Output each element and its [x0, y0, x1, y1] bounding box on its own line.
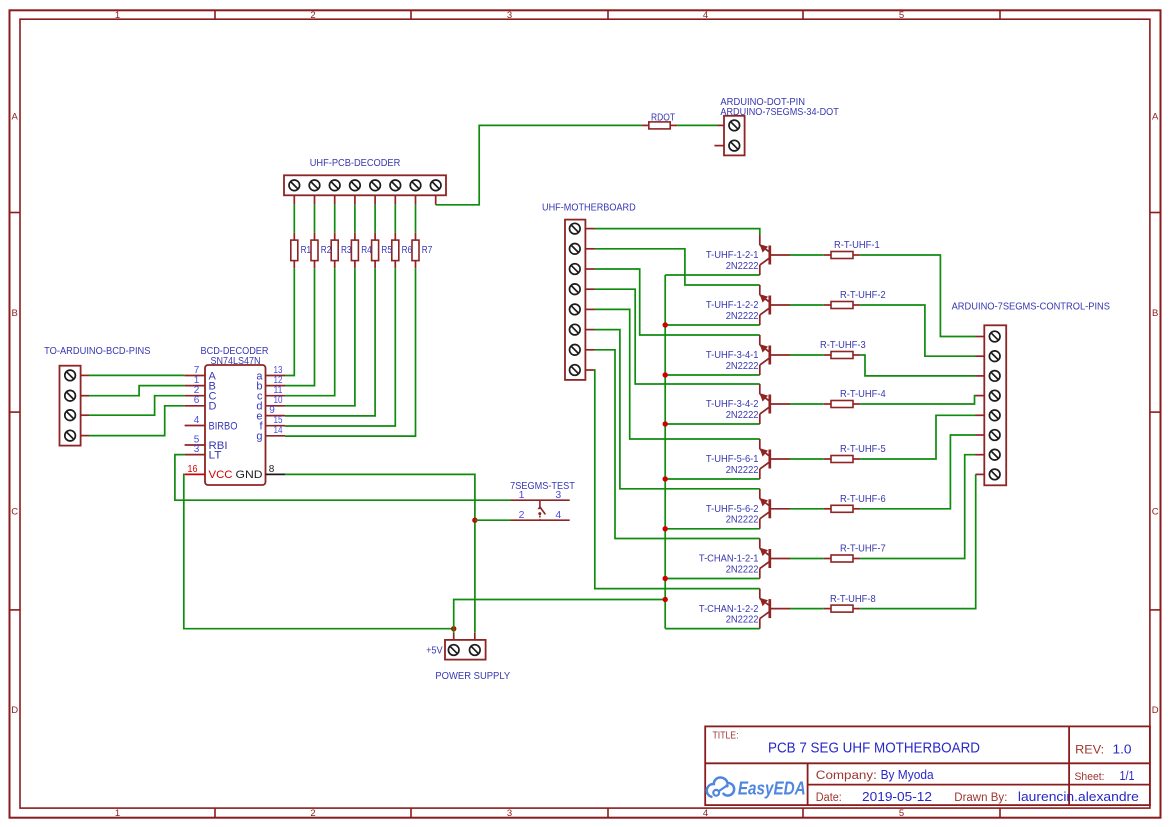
junction GND at switch row [472, 518, 477, 523]
svg-text:UHF-PCB-DECODER: UHF-PCB-DECODER [310, 157, 401, 169]
svg-text:C: C [11, 507, 18, 518]
EasyEDA logo cloud [707, 777, 734, 796]
wire R6 to IC pin [285, 268, 395, 426]
svg-text:3: 3 [507, 10, 512, 21]
wire R3 to IC pin [285, 268, 335, 396]
svg-text:6: 6 [194, 395, 200, 406]
svg-text:D: D [209, 401, 217, 413]
svg-text:Sheet:: Sheet: [1075, 771, 1105, 783]
wire Q6 base to resistor [790, 508, 824, 510]
resistor R-T-UHF-6 [824, 508, 831, 510]
svg-text:4: 4 [703, 808, 708, 819]
svg-text:R-T-UHF-7: R-T-UHF-7 [840, 543, 886, 555]
svg-text:PCB 7 SEG UHF MOTHERBOARD: PCB 7 SEG UHF MOTHERBOARD [768, 739, 980, 756]
junction common rail y=479 [663, 476, 668, 481]
svg-text:R7: R7 [422, 245, 433, 256]
junction at power supply pin1 [451, 626, 456, 631]
wire R-T-UHF-4 to ARD pin4 [860, 396, 975, 404]
wire Q3 emitter to common rail [665, 374, 760, 376]
transistor Q6 T-UHF-5-6-2 2N2222 [759, 489, 761, 499]
resistor R7 [415, 233, 417, 240]
wire R-T-UHF-8 to ARD pin8 [860, 474, 976, 608]
svg-text:2N2222: 2N2222 [726, 464, 759, 476]
svg-text:ARDUINO-7SEGMS-CONTROL-PINS: ARDUINO-7SEGMS-CONTROL-PINS [952, 301, 1110, 313]
svg-text:SN74LS47N: SN74LS47N [211, 355, 261, 367]
wire R-T-UHF-7 to ARD pin7 [860, 455, 975, 559]
junction common rail y=424 [663, 421, 668, 426]
resistor R3 [334, 233, 336, 240]
svg-text:R-T-UHF-5: R-T-UHF-5 [840, 443, 886, 455]
svg-text:R-T-UHF-1: R-T-UHF-1 [834, 239, 880, 251]
resistor R-T-UHF-8 [824, 608, 831, 610]
svg-text:2N2222: 2N2222 [726, 514, 759, 526]
resistor R6 [394, 233, 396, 240]
wires decoder pins 1-7 to resistors R1-R7 [293, 205, 295, 233]
connector ARDUINO-DOT-PIN pin stubs [718, 124, 725, 126]
wire Q2 base to resistor [790, 304, 824, 306]
wire Q5 emitter to common rail [665, 478, 760, 480]
resistor R-T-UHF-3 [824, 354, 831, 356]
svg-text:14: 14 [274, 425, 283, 436]
svg-text:g: g [256, 431, 262, 443]
IC U1 right pins a-g [266, 375, 286, 377]
svg-text:R-T-UHF-4: R-T-UHF-4 [840, 388, 886, 400]
svg-text:A: A [12, 111, 19, 122]
wire +5V rail to transistor common [454, 600, 666, 629]
wire RDOT to ARDUINO-DOT-PIN [677, 124, 717, 126]
connector UHF-MOTHERBOARD pin stubs [585, 228, 594, 230]
resistor R-T-UHF-7 [824, 558, 831, 560]
svg-text:2: 2 [519, 509, 525, 521]
wire MB pin5 to Q5 collector [595, 309, 760, 439]
svg-text:2N2222: 2N2222 [726, 563, 759, 575]
svg-text:R1: R1 [301, 245, 312, 256]
svg-text:D: D [1152, 705, 1159, 716]
svg-text:B: B [12, 308, 18, 319]
svg-text:5: 5 [899, 808, 904, 819]
svg-text:Drawn By:: Drawn By: [954, 792, 1007, 804]
svg-text:8: 8 [269, 464, 275, 475]
connector POWER SUPPLY pin stubs [453, 633, 455, 640]
connector J1 UHF-PCB-DECODER 8-pin terminal block [284, 175, 446, 195]
svg-text:3: 3 [555, 489, 561, 501]
svg-text:BIRBO: BIRBO [209, 420, 238, 432]
transistor Q1 T-UHF-1-2-1 2N2222 [759, 235, 761, 245]
svg-text:GND: GND [236, 469, 263, 481]
IC U1 left pins A B C D BIRBO RBI LT [185, 375, 205, 377]
wire Q5 base to resistor [790, 458, 824, 460]
connector ARDUINO-7SEGMS-CONTROL-PINS 8-pin [984, 325, 1006, 485]
connector POWER SUPPLY 2-pin [445, 640, 486, 660]
wire Q4 base to resistor [790, 403, 824, 405]
connector ARDUINO-DOT-PIN 2-pin [724, 116, 745, 156]
resistor R1 [293, 233, 295, 240]
svg-text:4: 4 [555, 509, 561, 521]
junction common rail y=375 [663, 372, 668, 377]
svg-text:RDOT: RDOT [651, 111, 675, 123]
svg-text:Company:: Company: [816, 770, 877, 782]
wire MB pin3 to Q3 collector [595, 269, 760, 335]
wire R-T-UHF-6 to ARD pin6 [860, 435, 975, 509]
svg-text:POWER SUPPLY: POWER SUPPLY [435, 670, 510, 682]
transistor Q4 T-UHF-3-4-2 2N2222 [759, 384, 761, 394]
svg-text:R-T-UHF-6: R-T-UHF-6 [840, 493, 886, 505]
wire Q8 base to resistor [790, 608, 824, 610]
svg-text:R6: R6 [402, 245, 413, 256]
svg-text:2N2222: 2N2222 [726, 409, 759, 421]
resistor R4 [354, 233, 356, 240]
wire transistor common emitter rail [664, 275, 666, 629]
svg-text:2: 2 [310, 10, 315, 21]
resistor R-T-UHF-1 [824, 254, 831, 256]
svg-text:5: 5 [899, 10, 904, 21]
svg-text:LT: LT [209, 449, 222, 461]
svg-text:2N2222: 2N2222 [726, 260, 759, 272]
wire Q6 emitter to common rail [665, 528, 760, 530]
connector UHF-PCB-DECODER pin stubs [293, 195, 295, 205]
wire Q4 emitter to common rail [665, 423, 760, 425]
wire BCD pin2 to IC B [89, 386, 185, 396]
wire MB pin4 to Q4 collector [595, 289, 760, 384]
IC U1 SN74LS47N body [205, 365, 266, 485]
svg-text:R-T-UHF-3: R-T-UHF-3 [820, 339, 866, 351]
svg-text:laurencin.alexandre: laurencin.alexandre [1018, 790, 1139, 804]
svg-text:R4: R4 [361, 245, 372, 256]
resistor R5 [374, 233, 376, 240]
wire MB pin8 to Q8 collector [595, 370, 760, 589]
connector TO-ARDUINO-BCD-PINS 4-pin [60, 366, 81, 446]
svg-text:1: 1 [115, 808, 120, 819]
svg-text:4: 4 [194, 415, 200, 426]
svg-text:1.0: 1.0 [1113, 743, 1132, 757]
svg-text:R3: R3 [341, 245, 352, 256]
junction common rail y=325 [663, 322, 668, 327]
wire Q1 emitter to common rail [665, 274, 760, 276]
svg-text:REV:: REV: [1075, 743, 1104, 757]
wire R1 to IC pin [285, 268, 294, 375]
svg-text:R5: R5 [381, 245, 392, 256]
wire R4 to IC pin [285, 268, 355, 406]
wire Q2 emitter to common rail [665, 324, 760, 326]
wire MB pin7 to Q7 collector [595, 350, 760, 539]
wire BCD pin1 to IC A [89, 374, 185, 376]
IC U1 pin 8 GND [266, 473, 286, 475]
junction common rail y=599.5 [663, 597, 668, 602]
resistor R-T-UHF-4 [824, 403, 831, 405]
wire Q7 base to resistor [790, 558, 824, 560]
svg-text:By Myoda: By Myoda [881, 768, 934, 782]
svg-text:16: 16 [188, 464, 198, 475]
svg-text:1: 1 [519, 489, 525, 501]
svg-text:+5V: +5V [426, 645, 443, 657]
svg-text:TO-ARDUINO-BCD-PINS: TO-ARDUINO-BCD-PINS [44, 345, 150, 357]
wire Q7 emitter to common rail [665, 578, 760, 580]
svg-text:VCC: VCC [209, 469, 233, 481]
title block frame [705, 726, 1150, 805]
svg-text:ARDUINO-7SEGMS-34-DOT: ARDUINO-7SEGMS-34-DOT [720, 106, 839, 118]
wire Q3 base to resistor [790, 354, 824, 356]
wire Q8 emitter to common rail [665, 628, 760, 630]
wire R-T-UHF-5 to ARD pin5 [860, 415, 975, 459]
svg-text:Date:: Date: [816, 792, 842, 804]
svg-text:C: C [1152, 507, 1159, 518]
wire VCC to power supply [184, 474, 454, 628]
svg-text:2N2222: 2N2222 [726, 310, 759, 322]
connector TO-ARDUINO-BCD-PINS pin stubs [81, 374, 89, 376]
wire power supply pin1 stub riser [453, 629, 455, 633]
wire MB pin6 to Q6 collector [595, 330, 760, 489]
transistor Q7 T-CHAN-1-2-1 2N2222 [759, 539, 761, 549]
svg-text:10: 10 [274, 395, 283, 406]
svg-text:2019-05-12: 2019-05-12 [862, 790, 932, 804]
svg-text:3: 3 [194, 444, 200, 455]
resistor R2 [314, 233, 316, 240]
IC U1 pin 16 VCC [185, 473, 205, 475]
wire R-T-UHF-1 to ARD pin1 [860, 255, 975, 337]
svg-text:UHF-MOTHERBOARD: UHF-MOTHERBOARD [542, 202, 636, 214]
wire R-T-UHF-3 to ARD pin3 [860, 355, 975, 376]
svg-text:B: B [1152, 308, 1158, 319]
wire MB pin2 to Q2 collector [595, 249, 760, 285]
wire R5 to IC pin [285, 268, 375, 416]
connector UHF-MOTHERBOARD 8-pin [565, 220, 585, 380]
wire MB pin1 to Q1 collector [595, 229, 760, 235]
wire R7 to IC pin [285, 268, 416, 436]
wire GND net to switch and power supply [285, 474, 475, 632]
svg-text:TITLE:: TITLE: [713, 730, 739, 742]
wire R2 to IC pin [285, 268, 315, 385]
svg-text:1/1: 1/1 [1120, 769, 1135, 783]
wire BCD pin3 to IC C [89, 396, 185, 416]
svg-text:R-T-UHF-2: R-T-UHF-2 [840, 289, 886, 301]
svg-text:R2: R2 [321, 245, 332, 256]
svg-text:R-T-UHF-8: R-T-UHF-8 [830, 593, 876, 605]
transistor Q2 T-UHF-1-2-2 2N2222 [759, 285, 761, 295]
wire LT to switch pin1 [175, 455, 511, 501]
svg-text:D: D [11, 705, 18, 716]
transistor Q8 T-CHAN-1-2-2 2N2222 [759, 589, 761, 599]
svg-text:3: 3 [507, 808, 512, 819]
svg-text:2N2222: 2N2222 [726, 613, 759, 625]
resistor R-T-UHF-5 [824, 458, 831, 460]
resistor R-T-UHF-2 [824, 304, 831, 306]
svg-text:2N2222: 2N2222 [726, 360, 759, 372]
svg-text:EasyEDA: EasyEDA [738, 778, 806, 799]
svg-text:2: 2 [310, 808, 315, 819]
transistor Q3 T-UHF-3-4-1 2N2222 [759, 335, 761, 345]
transistor Q5 T-UHF-5-6-1 2N2222 [759, 439, 761, 449]
svg-text:A: A [1152, 111, 1159, 122]
wire R-T-UHF-2 to ARD pin2 [860, 305, 975, 356]
wire decoder pin8 to RDOT [436, 125, 642, 204]
svg-text:1: 1 [115, 10, 120, 21]
svg-text:4: 4 [703, 10, 708, 21]
junction common rail y=578.5 [663, 576, 668, 581]
wire GND junction to switch pin2 [475, 519, 511, 521]
junction common rail y=528.8 [663, 526, 668, 531]
resistor RDOT [642, 124, 649, 126]
wire BCD pin4 to IC D [89, 406, 185, 436]
connector ARDUINO-7SEGMS-CONTROL-PINS pin stubs [976, 336, 985, 338]
wire Q1 base to resistor [790, 254, 824, 256]
switch S1 7SEGMS-TEST [511, 499, 570, 501]
